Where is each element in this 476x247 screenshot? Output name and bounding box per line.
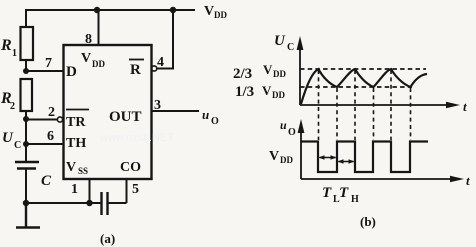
svg-text:2/3: 2/3 — [233, 66, 252, 82]
svg-text:4: 4 — [157, 55, 164, 70]
svg-text:CO: CO — [120, 160, 141, 175]
node junction R2/pin2 — [23, 116, 29, 122]
arrow TH duration — [338, 159, 355, 163]
label 2/3 VDD — [233, 62, 286, 82]
axis X upper plot — [300, 104, 450, 106]
svg-text:D: D — [66, 64, 77, 80]
pin 4 label — [157, 55, 164, 70]
label R1 — [0, 37, 17, 59]
ground — [16, 203, 40, 228]
svg-text:H: H — [351, 194, 359, 205]
node junction pin6/C — [23, 141, 29, 147]
wire bottom rail — [26, 202, 101, 204]
svg-text:V: V — [81, 51, 91, 66]
svg-text:TH: TH — [66, 136, 86, 151]
svg-text:www.dzsc.NET: www.dzsc.NET — [99, 132, 174, 144]
svg-text:6: 6 — [47, 129, 54, 144]
svg-text:DD: DD — [273, 69, 286, 79]
wire pin 2 — [26, 119, 58, 121]
svg-text:U: U — [2, 130, 14, 146]
dashed level 1/3 VDD — [300, 86, 412, 88]
svg-text:V: V — [204, 4, 214, 19]
label R-bar pin inside IC — [130, 62, 141, 78]
pin 2 label — [48, 105, 55, 120]
label R2 — [0, 90, 15, 112]
capacitor C — [15, 162, 39, 169]
svg-text:SS: SS — [78, 166, 88, 176]
label VDD level — [269, 149, 293, 165]
svg-text:1: 1 — [12, 48, 17, 59]
waveform uO output square wave — [301, 142, 428, 173]
resistor R2 — [21, 79, 33, 111]
svg-text:3: 3 — [154, 98, 161, 113]
svg-text:u: u — [280, 118, 287, 132]
wire R2 bottom to node — [25, 111, 27, 120]
svg-text:R: R — [0, 37, 12, 54]
caption (a) — [100, 231, 115, 246]
pin 1 label — [71, 182, 78, 197]
axis Y upper arrowhead — [297, 36, 304, 50]
svg-text:DD: DD — [272, 90, 285, 100]
node junction pin4/VDD rail — [170, 7, 176, 13]
svg-text:V: V — [263, 62, 273, 77]
svg-text:1/3: 1/3 — [235, 84, 254, 100]
wire R1 top lead — [25, 9, 27, 27]
label t upper axis — [463, 99, 467, 114]
axis X upper arrowhead — [446, 102, 460, 108]
overline of TR — [66, 109, 89, 111]
label TH pin inside IC — [66, 136, 86, 151]
svg-text:C: C — [14, 140, 21, 151]
axis Y lower plot — [300, 128, 302, 179]
wire pin 3 output — [152, 110, 200, 112]
label TR pin inside IC — [66, 115, 86, 130]
svg-text:OUT: OUT — [109, 109, 142, 125]
svg-text:2: 2 — [10, 101, 15, 112]
wire C2 to pin5 — [108, 202, 127, 204]
resistor R1 — [21, 27, 34, 60]
svg-text:V: V — [262, 83, 272, 98]
pin 8 label — [85, 32, 92, 47]
wire pin 7 — [26, 70, 63, 72]
svg-text:2: 2 — [48, 105, 55, 120]
waveform Uc capacitor voltage — [301, 69, 427, 104]
wire C bottom lead — [25, 169, 27, 205]
caption (b) — [360, 214, 376, 229]
label VDD supply — [204, 4, 227, 20]
dashed vertical t4 — [373, 88, 375, 140]
svg-text:1: 1 — [71, 182, 78, 197]
label CO pin inside IC — [120, 160, 141, 175]
pin 5 label — [132, 182, 139, 197]
label VSS pin inside IC — [66, 160, 88, 176]
svg-text:u: u — [202, 107, 209, 122]
svg-text:T: T — [322, 185, 332, 201]
wire pin 5 — [126, 179, 128, 203]
svg-text:O: O — [288, 127, 296, 138]
wire pin 6 — [26, 143, 63, 145]
svg-text:DD: DD — [280, 155, 293, 165]
pin 3 label — [154, 98, 161, 113]
wire VDD top rail — [26, 9, 195, 11]
capacitor C2 pin5 bypass — [102, 192, 108, 215]
wire pin 8 — [98, 10, 100, 45]
wire node2 to node6 — [25, 119, 27, 145]
label 1/3 VDD — [235, 83, 285, 100]
svg-text:5: 5 — [132, 182, 139, 197]
svg-text:TR: TR — [66, 115, 86, 130]
label t lower axis — [466, 173, 470, 188]
arrow TL duration — [319, 155, 337, 159]
dashed vertical t1 — [318, 70, 320, 140]
svg-text:V: V — [269, 149, 279, 164]
label C — [41, 173, 52, 189]
svg-text:DD: DD — [214, 10, 227, 20]
svg-text:(b): (b) — [360, 214, 376, 229]
node junction R1/R2/pin7 — [23, 68, 29, 74]
label uO plot — [280, 118, 296, 138]
node junction pin1 — [86, 200, 92, 206]
svg-text:R: R — [130, 62, 141, 78]
label VDD pin inside IC — [81, 51, 105, 69]
axis Y lower arrowhead — [298, 119, 305, 133]
axis X lower plot — [301, 178, 454, 180]
watermark — [99, 132, 174, 144]
label Uc plot — [274, 33, 294, 53]
wire C top lead — [25, 144, 27, 162]
svg-text:V: V — [66, 160, 76, 175]
dashed vertical t6 — [410, 88, 412, 140]
svg-text:8: 8 — [85, 32, 92, 47]
svg-text:t: t — [466, 173, 470, 188]
wire pin 4 — [157, 10, 173, 69]
svg-text:DD: DD — [92, 59, 105, 69]
wire R1 bottom to node — [25, 60, 27, 72]
svg-text:C: C — [41, 173, 52, 189]
label D pin inside IC — [66, 64, 77, 80]
dashed vertical t3 — [354, 70, 356, 140]
axis X lower arrowhead — [450, 176, 464, 182]
label TL TH — [322, 185, 359, 205]
wire pin 1 — [89, 179, 91, 203]
axis Y upper plot — [299, 46, 301, 105]
label uO output — [202, 107, 219, 127]
label Uc node — [2, 130, 21, 151]
dashed vertical t5 — [390, 70, 392, 140]
node junction ground — [23, 200, 29, 206]
svg-text:O: O — [211, 116, 219, 127]
svg-text:C: C — [287, 42, 294, 53]
svg-text:7: 7 — [45, 56, 52, 71]
pin 6 label — [47, 129, 54, 144]
svg-text:T: T — [339, 185, 349, 201]
svg-text:t: t — [463, 99, 467, 114]
op-amp U1 555 timer body — [64, 45, 152, 179]
svg-text:U: U — [274, 33, 286, 49]
node junction pin8/VDD rail — [94, 7, 100, 13]
pin 7 label — [45, 56, 52, 71]
pin 2 bubble — [57, 117, 62, 122]
pin 4 bubble — [152, 66, 157, 71]
overline of R-bar — [129, 59, 144, 61]
dashed vertical t2 — [336, 88, 338, 140]
label OUT pin inside IC — [109, 109, 142, 125]
svg-text:(a): (a) — [100, 231, 115, 246]
dashed level 2/3 VDD — [300, 68, 426, 70]
